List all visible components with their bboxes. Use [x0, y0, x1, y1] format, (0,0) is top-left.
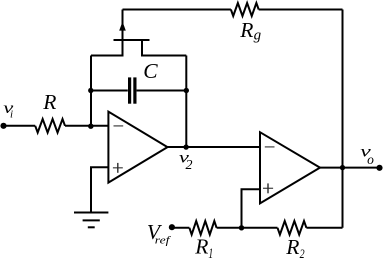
svg-text:C: C [143, 59, 158, 83]
svg-text:2: 2 [300, 246, 305, 261]
svg-text:R: R [239, 18, 253, 42]
svg-text:R: R [42, 90, 56, 114]
svg-text:R: R [194, 235, 208, 259]
svg-text:i: i [10, 108, 13, 120]
svg-text:g: g [254, 28, 262, 44]
svg-text:ref: ref [155, 236, 172, 247]
svg-text:R: R [285, 235, 299, 259]
svg-text:2: 2 [186, 158, 193, 173]
svg-text:o: o [367, 152, 374, 167]
svg-text:1: 1 [208, 246, 213, 262]
